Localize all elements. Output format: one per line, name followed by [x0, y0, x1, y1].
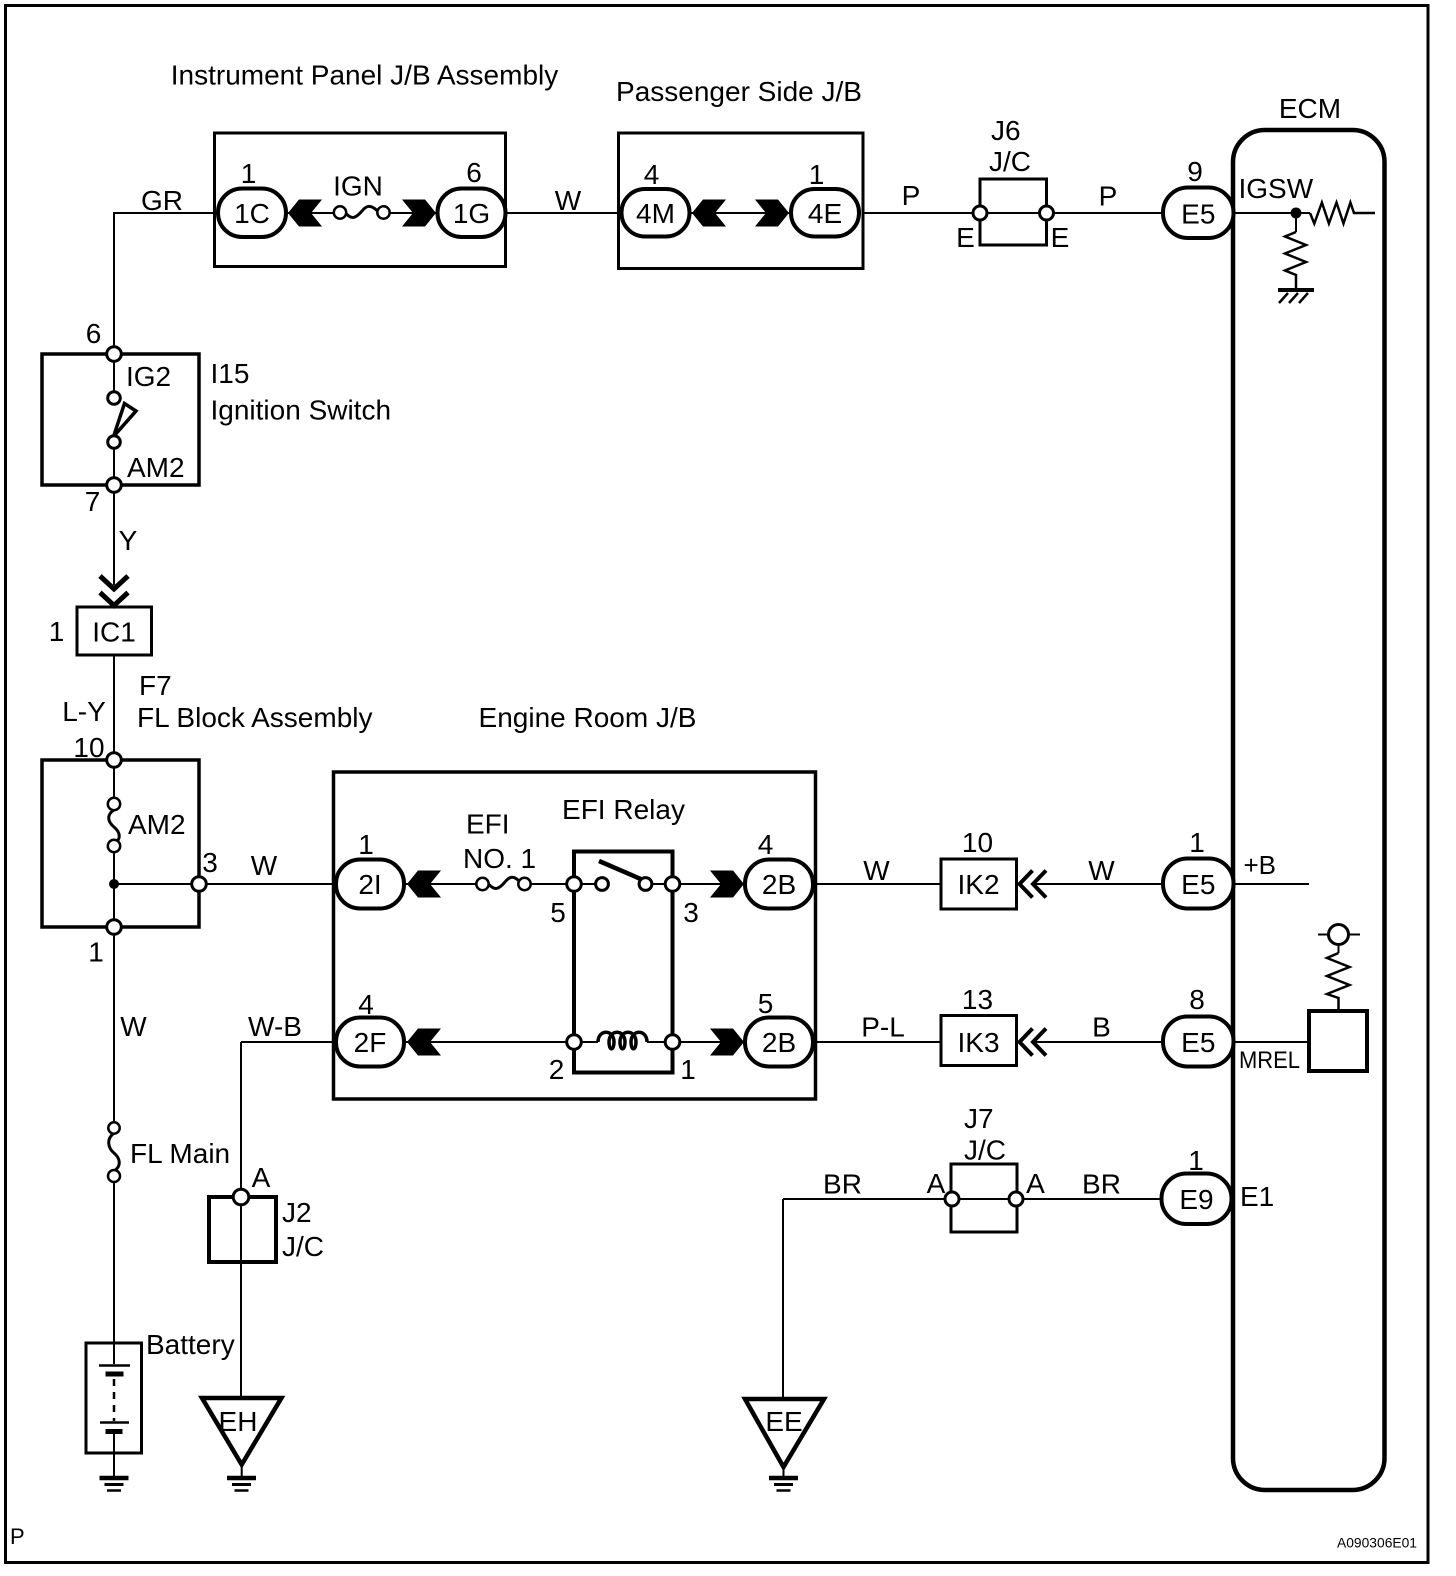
- svg-text:E1: E1: [1240, 1181, 1274, 1212]
- svg-text:4: 4: [644, 159, 660, 190]
- svg-text:GR: GR: [141, 185, 183, 216]
- svg-text:3: 3: [683, 897, 699, 928]
- svg-text:FL Main: FL Main: [130, 1138, 230, 1169]
- svg-text:IC1: IC1: [92, 617, 136, 648]
- svg-text:P: P: [1099, 181, 1118, 212]
- svg-text:L-Y: L-Y: [62, 696, 106, 727]
- svg-text:E: E: [956, 222, 975, 253]
- svg-text:IK3: IK3: [957, 1027, 999, 1058]
- svg-text:Passenger Side J/B: Passenger Side J/B: [616, 76, 862, 107]
- svg-text:IGSW: IGSW: [1239, 173, 1314, 204]
- svg-text:AM2: AM2: [128, 809, 186, 840]
- svg-text:2F: 2F: [354, 1027, 387, 1058]
- svg-text:2I: 2I: [358, 869, 381, 900]
- svg-text:E5: E5: [1181, 1027, 1215, 1058]
- svg-text:4M: 4M: [636, 198, 675, 229]
- svg-text:AM2: AM2: [127, 452, 185, 483]
- svg-text:4: 4: [758, 829, 774, 860]
- svg-text:6: 6: [86, 318, 102, 349]
- svg-text:Engine Room J/B: Engine Room J/B: [479, 702, 697, 733]
- svg-text:J/C: J/C: [989, 146, 1031, 177]
- svg-text:I15: I15: [211, 358, 250, 389]
- svg-text:P-L: P-L: [861, 1012, 905, 1043]
- svg-text:13: 13: [962, 984, 993, 1015]
- svg-text:W-B: W-B: [248, 1011, 302, 1042]
- svg-text:W: W: [555, 185, 582, 216]
- svg-text:3: 3: [202, 847, 218, 878]
- svg-text:A: A: [927, 1168, 946, 1199]
- svg-text:E5: E5: [1181, 199, 1215, 230]
- svg-text:J2: J2: [282, 1197, 312, 1228]
- svg-text:1: 1: [680, 1054, 696, 1085]
- svg-text:1: 1: [358, 829, 374, 860]
- svg-text:1: 1: [241, 158, 257, 189]
- svg-text:Battery: Battery: [146, 1329, 235, 1360]
- svg-text:1C: 1C: [234, 198, 270, 229]
- svg-text:MREL: MREL: [1239, 1047, 1300, 1074]
- svg-text:W: W: [863, 855, 890, 886]
- svg-text:IK2: IK2: [957, 869, 999, 900]
- svg-text:4: 4: [358, 989, 374, 1020]
- svg-text:A: A: [1026, 1168, 1045, 1199]
- svg-text:EE: EE: [765, 1406, 802, 1437]
- svg-text:W: W: [120, 1011, 147, 1042]
- svg-text:IG2: IG2: [126, 361, 171, 392]
- svg-text:BR: BR: [1082, 1169, 1121, 1200]
- svg-text:W: W: [251, 850, 278, 881]
- svg-text:IGN: IGN: [333, 171, 383, 202]
- svg-text:EFI Relay: EFI Relay: [562, 794, 685, 825]
- svg-text:B: B: [1092, 1012, 1111, 1043]
- svg-text:Ignition Switch: Ignition Switch: [211, 395, 392, 426]
- svg-text:7: 7: [85, 486, 101, 517]
- svg-text:1: 1: [49, 616, 65, 647]
- svg-text:E9: E9: [1179, 1184, 1213, 1215]
- svg-text:5: 5: [550, 897, 566, 928]
- svg-text:BR: BR: [823, 1169, 862, 1200]
- svg-text:FL Block Assembly: FL Block Assembly: [137, 702, 372, 733]
- svg-text:4E: 4E: [808, 198, 842, 229]
- svg-text:1: 1: [88, 937, 104, 968]
- svg-text:1G: 1G: [453, 198, 490, 229]
- svg-text:Y: Y: [119, 525, 138, 556]
- svg-text:J7: J7: [964, 1103, 994, 1134]
- svg-text:EH: EH: [219, 1406, 258, 1437]
- svg-text:1: 1: [809, 159, 825, 190]
- svg-text:9: 9: [1187, 156, 1203, 187]
- svg-text:E5: E5: [1181, 869, 1215, 900]
- svg-text:F7: F7: [139, 670, 172, 701]
- svg-text:1: 1: [1189, 827, 1205, 858]
- svg-text:5: 5: [758, 988, 774, 1019]
- svg-text:2B: 2B: [762, 1027, 796, 1058]
- svg-text:W: W: [1088, 855, 1115, 886]
- svg-text:2B: 2B: [762, 869, 796, 900]
- svg-text:P: P: [10, 1524, 25, 1549]
- svg-text:J/C: J/C: [282, 1231, 324, 1262]
- svg-text:A: A: [252, 1162, 271, 1193]
- svg-text:ECM: ECM: [1279, 93, 1341, 124]
- svg-text:EFI: EFI: [466, 809, 510, 840]
- svg-text:E: E: [1051, 222, 1070, 253]
- svg-text:J/C: J/C: [964, 1135, 1006, 1166]
- svg-text:6: 6: [466, 157, 482, 188]
- svg-text:Instrument Panel J/B Assembly: Instrument Panel J/B Assembly: [171, 60, 559, 91]
- svg-text:NO. 1: NO. 1: [463, 843, 536, 874]
- svg-text:10: 10: [73, 732, 104, 763]
- svg-text:8: 8: [1189, 984, 1205, 1015]
- svg-text:10: 10: [962, 827, 993, 858]
- svg-text:J6: J6: [991, 115, 1021, 146]
- svg-text:A090306E01: A090306E01: [1337, 1535, 1417, 1551]
- svg-text:P: P: [902, 180, 921, 211]
- svg-text:2: 2: [549, 1054, 565, 1085]
- svg-text:+B: +B: [1244, 850, 1277, 880]
- svg-text:1: 1: [1188, 1145, 1204, 1176]
